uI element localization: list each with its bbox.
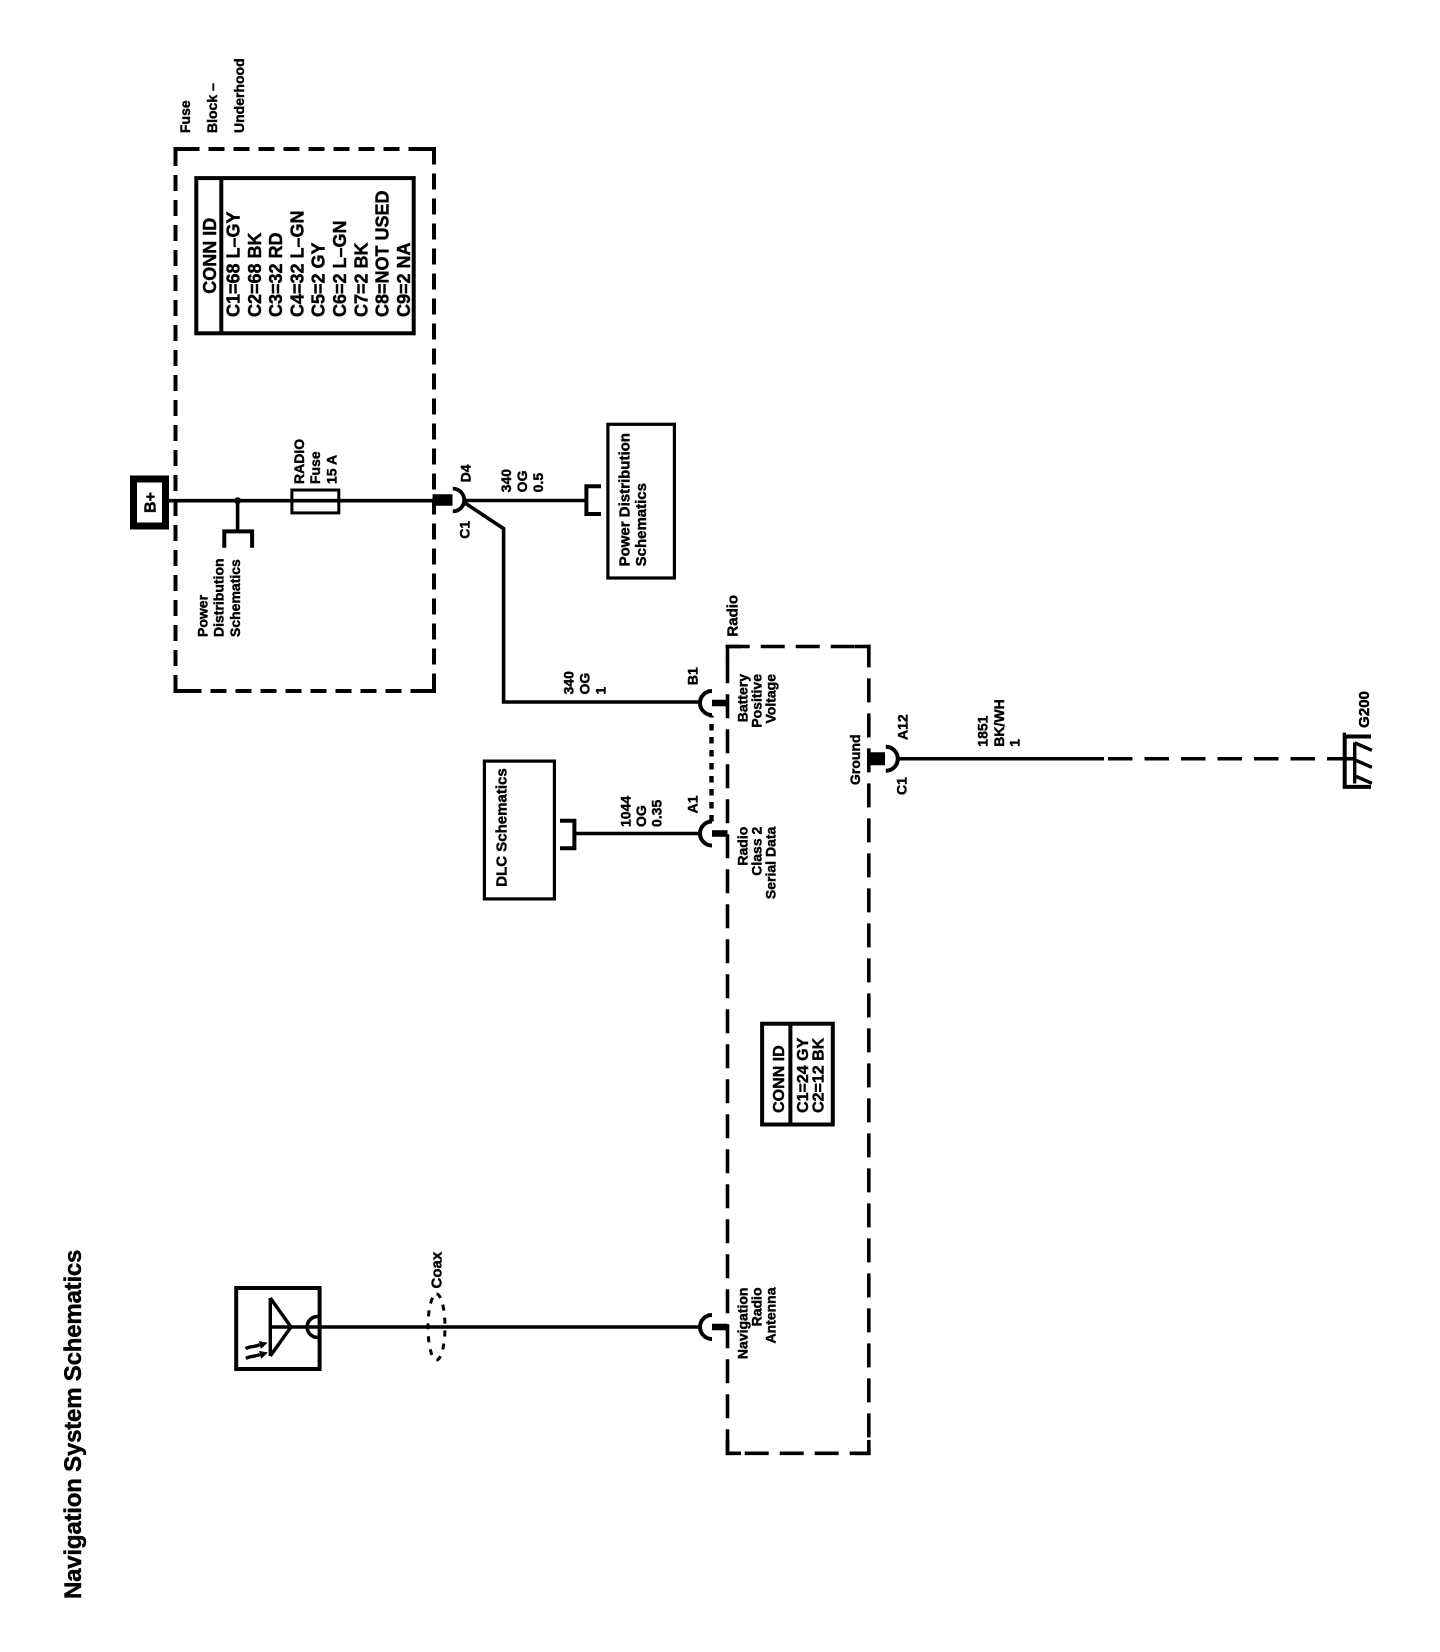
fuse label RADIO Fuse 15 A [291,439,340,484]
coax shield ellipse [428,1294,445,1360]
svg-text:C1=24 GY: C1=24 GY [795,1037,812,1112]
svg-text:CONN ID: CONN ID [200,218,220,294]
svg-text:0.5: 0.5 [530,473,546,493]
svg-text:G200: G200 [1356,691,1373,728]
svg-text:340: 340 [498,469,514,493]
fuse RADIO 15 A [292,490,339,513]
antenna box [236,1288,319,1369]
coax wire antenna to radio [320,1325,700,1329]
svg-text:C4=32 L–GN: C4=32 L–GN [287,210,307,317]
DLC box tab (staple) [560,821,574,848]
power distribution box tab (staple) [586,486,601,514]
svg-text:Distribution: Distribution [211,558,227,637]
connector C1 grouping dashed link between B1 and A1 [709,716,713,822]
wire DLC to A1 [574,832,700,836]
svg-text:C6=2 L–GN: C6=2 L–GN [330,220,350,317]
svg-text:340: 340 [561,671,577,695]
svg-text:B1: B1 [685,667,701,685]
navigation radio antenna pin label [735,1287,779,1359]
svg-text:Power: Power [194,594,210,637]
fuse block - underhood dashed box [176,149,435,691]
svg-text:Underhood: Underhood [231,58,247,133]
svg-text:C2=12 BK: C2=12 BK [811,1037,828,1113]
antenna connector stub at radio [712,1324,728,1331]
G200 ground symbol [1342,735,1372,787]
svg-text:A1: A1 [685,795,701,813]
wire D4 to power distribution box tab [464,499,586,503]
wire B+ down to fuse and D4 [169,499,433,503]
connector A1 cup [700,822,712,846]
svg-text:C1: C1 [894,777,910,795]
svg-text:Block –: Block – [204,83,220,133]
power distribution schematics box [608,424,675,578]
conn id table (radio) [762,1024,833,1125]
svg-text:RADIO: RADIO [291,439,307,484]
antenna symbol [270,1298,319,1356]
fuse block - underhood label [177,58,247,133]
wire branch to power distribution tab [236,501,240,532]
connector D4 cup [453,489,464,512]
radio class 2 serial data pin label [735,826,779,899]
svg-text:Serial Data: Serial Data [763,826,779,899]
svg-text:C3=32 RD: C3=32 RD [266,232,286,317]
svg-text:1: 1 [1007,739,1023,747]
svg-text:D4: D4 [458,464,474,482]
svg-text:BK/WH: BK/WH [991,699,1007,746]
svg-text:1044: 1044 [617,796,633,827]
radio dashed box [728,647,869,1454]
connector A1 stub [712,830,728,837]
DLC schematics box [484,761,554,899]
wire diagonal from D4 toward radio B1 [465,503,700,702]
svg-text:Power Distribution: Power Distribution [616,433,633,566]
svg-text:C8=NOT USED: C8=NOT USED [373,190,393,317]
svg-text:C1=68 L–GY: C1=68 L–GY [224,211,244,317]
svg-text:A12: A12 [895,714,911,740]
antenna connector cup at radio [700,1315,712,1339]
radio box corner ticks [728,647,869,1454]
ground wire solid [898,757,1104,761]
wire label 340 OG 1 [561,671,609,695]
B+ battery feed symbol [134,479,166,526]
svg-text:OG: OG [577,673,593,695]
svg-text:Antenna: Antenna [763,1287,779,1343]
power distribution off-page tab (staple) [224,531,252,547]
svg-text:Coax: Coax [429,1251,446,1288]
ground pin cup [886,747,898,771]
svg-text:Fuse: Fuse [177,100,193,133]
svg-text:C7=2 BK: C7=2 BK [351,242,371,317]
svg-text:Navigation System Schematics: Navigation System Schematics [60,1250,87,1599]
svg-text:1: 1 [593,687,609,695]
svg-text:Voltage: Voltage [763,674,779,724]
svg-text:Schematics: Schematics [633,483,650,566]
connector B1 cup [700,691,712,715]
ground pin stub A12 [869,752,885,765]
connector B1 stub [712,700,728,707]
svg-text:Radio: Radio [725,595,742,637]
svg-text:DLC Schematics: DLC Schematics [494,768,511,886]
wire label 340 OG 0.5 [498,469,546,493]
ground wire dashed continuation [1108,757,1342,760]
svg-text:C2=68 BK: C2=68 BK [245,232,265,317]
fuse block box corner ticks [176,149,435,691]
antenna wave arrows [246,1341,268,1359]
svg-text:Schematics: Schematics [227,559,243,637]
svg-text:C9=2 NA: C9=2 NA [394,242,414,317]
svg-text:0.35: 0.35 [649,800,665,827]
power distribution schematics tab label [194,558,243,637]
svg-text:15 A: 15 A [323,455,339,484]
conn id table (fuse block) [196,178,414,333]
svg-text:CONN ID: CONN ID [771,1045,788,1113]
svg-text:OG: OG [514,470,530,492]
wire label 1851 BK/WH 1 [975,699,1023,746]
connector D4 pin stub [433,494,453,505]
svg-text:C1: C1 [457,521,473,539]
junction node [234,497,241,504]
battery positive voltage pin label [735,674,779,728]
svg-text:Fuse: Fuse [307,451,323,484]
svg-text:B+: B+ [143,492,160,513]
svg-text:Ground: Ground [847,734,863,785]
svg-text:C5=2 GY: C5=2 GY [309,242,329,317]
svg-text:OG: OG [633,805,649,827]
svg-text:1851: 1851 [975,715,991,746]
wire label 1044 OG 0.35 [617,796,664,827]
